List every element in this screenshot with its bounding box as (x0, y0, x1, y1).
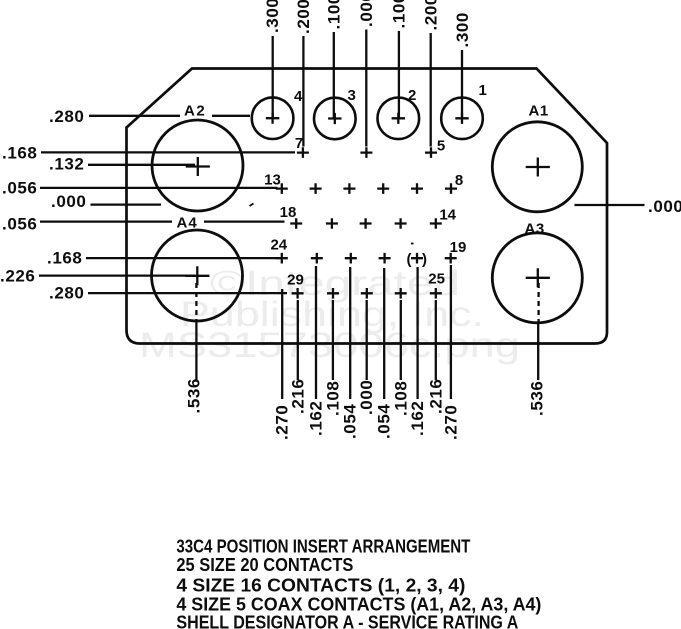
svg-text:.280: .280 (49, 107, 85, 126)
left dim line .168 lower (86, 257, 277, 259)
left dim line .056 lower (40, 220, 172, 222)
svg-text:.216: .216 (288, 379, 307, 415)
svg-text:.300: .300 (453, 12, 472, 48)
size20 contact 28 (327, 288, 339, 299)
size20 contact 11 (343, 183, 355, 194)
left dim line .168 upper (41, 151, 295, 153)
svg-text:.168: .168 (2, 144, 38, 163)
svg-text:4: 4 (294, 88, 303, 105)
bottom dim line .054 left (349, 267, 351, 399)
bottom dim line .000 (366, 300, 368, 380)
svg-text:.200: .200 (294, 0, 313, 34)
bottom dim line .216 right (435, 300, 437, 380)
svg-text:A1: A1 (529, 103, 549, 120)
bottom dim line .270 left (281, 289, 283, 399)
svg-text:7: 7 (295, 135, 303, 152)
left dim line .280 lower (88, 292, 287, 294)
svg-text:.000: .000 (648, 197, 681, 216)
svg-text:1: 1 (479, 82, 487, 99)
speck near A2 lower right (250, 204, 254, 207)
svg-text:29: 29 (287, 272, 304, 289)
svg-text:.168: .168 (47, 249, 83, 268)
svg-text:.162: .162 (408, 401, 427, 437)
bottom dim line .108 left (332, 300, 334, 380)
top dim line .200 right (430, 33, 432, 147)
bottom dim line .162 left (315, 266, 317, 399)
svg-text:19: 19 (450, 239, 467, 256)
svg-text:.300: .300 (263, 0, 282, 33)
coax contact A2 (152, 120, 243, 211)
svg-text:A2: A2 (184, 103, 206, 120)
top dim line .100 right (398, 31, 400, 118)
size20 contact 12 (310, 183, 322, 194)
svg-text:SHELL DESIGNATOR A - SERVICE R: SHELL DESIGNATOR A - SERVICE RATING A (176, 613, 518, 629)
bottom dim line .108 right (400, 300, 402, 380)
bottom dim line .162 right (416, 267, 418, 399)
svg-text:33C4 POSITION INSERT ARRANGEME: 33C4 POSITION INSERT ARRANGEMENT (176, 536, 470, 556)
svg-text:.200: .200 (422, 0, 441, 31)
size20 contact 22 (345, 253, 357, 264)
size20 contact 21 (379, 253, 391, 264)
svg-text:.270: .270 (441, 405, 460, 441)
svg-text:.226: .226 (0, 266, 36, 285)
svg-text:.056: .056 (2, 215, 38, 234)
top dim line .000 center (365, 30, 367, 147)
size16 contact 1 (441, 98, 483, 140)
size16 contact 3 (314, 98, 356, 140)
svg-text:14: 14 (439, 207, 456, 224)
coax contact A3 (492, 233, 582, 323)
svg-text:.536: .536 (184, 378, 203, 414)
bottom dim line .270 right (450, 265, 452, 399)
svg-text:): ) (422, 251, 427, 268)
top dim line .100 left (333, 32, 335, 118)
svg-text:5: 5 (437, 138, 445, 155)
size20 contact 20 (411, 253, 423, 264)
top dim line .300 right (461, 50, 463, 118)
size20 contact 17 (326, 218, 338, 229)
left dim line .000 reference (91, 203, 162, 205)
size20 contact 6 (360, 147, 372, 158)
svg-text:25: 25 (428, 271, 445, 288)
left dim line .226 (39, 274, 195, 276)
bottom dim line .216 left (297, 300, 299, 380)
svg-text:24: 24 (270, 236, 287, 253)
svg-text:.108: .108 (323, 381, 342, 417)
size20 contact 10 (377, 183, 389, 194)
svg-text:25 SIZE 20 CONTACTS: 25 SIZE 20 CONTACTS (176, 555, 353, 575)
svg-text:13: 13 (264, 172, 281, 189)
size20 contact 8 (445, 183, 457, 194)
size20 contact 27 (361, 288, 373, 299)
svg-text:8: 8 (455, 172, 463, 189)
svg-text:.000: .000 (51, 192, 87, 211)
svg-text:.100: .100 (324, 0, 343, 30)
svg-text:18: 18 (280, 204, 297, 221)
size20 contact 9 (411, 183, 423, 194)
svg-text:(: ( (407, 251, 412, 268)
size16 contact 4 (252, 97, 294, 139)
dim line .536 right (from A3) (537, 283, 539, 322)
svg-text:3: 3 (348, 87, 356, 104)
size16 contact 2 (378, 98, 420, 140)
size20 contact 26 (395, 288, 407, 299)
size20 contact 13 (276, 183, 288, 194)
top dim line .300 left (272, 36, 274, 117)
size20 contact 19 (445, 253, 457, 264)
size20 contact 5 (425, 147, 437, 158)
size20 contact 29 (292, 288, 304, 299)
svg-text:.000: .000 (357, 0, 376, 27)
svg-text:.132: .132 (49, 155, 85, 174)
top dim line .200 left (302, 36, 304, 147)
connector shell outline (127, 69, 608, 344)
bottom dim line .054 right (383, 268, 385, 399)
coax contact A4 (152, 230, 243, 321)
dim line .536 left (from A4) (195, 283, 197, 320)
svg-text:A4: A4 (177, 215, 198, 232)
svg-text:.280: .280 (49, 284, 85, 303)
left dim line .056 upper (40, 187, 278, 189)
size20 contact 14 (430, 218, 442, 229)
size20 contact 23 (311, 253, 323, 264)
svg-text:4 SIZE 16 CONTACTS (1, 2, 3, 4: 4 SIZE 16 CONTACTS (1, 2, 3, 4) (176, 576, 465, 596)
svg-text:.536: .536 (528, 381, 547, 417)
svg-text:4 SIZE 5 COAX CONTACTS (A1, A2: 4 SIZE 5 COAX CONTACTS (A1, A2, A3, A4) (176, 595, 541, 615)
size20 contact 25 (430, 288, 442, 299)
svg-text:.056: .056 (2, 179, 38, 198)
right dim line .000 (575, 204, 645, 206)
left dim line .132 (88, 164, 195, 166)
size20 contact 7 (297, 147, 309, 158)
svg-text:A3: A3 (525, 221, 545, 238)
size20 contact 16 (360, 218, 372, 229)
svg-text:2: 2 (408, 87, 416, 104)
size20 contact 18 (290, 218, 302, 229)
svg-text:.000: .000 (357, 380, 376, 416)
left dim line .280 upper (89, 115, 180, 117)
svg-text:.100: .100 (390, 0, 409, 29)
speck above contact 20 (411, 243, 414, 245)
coax contact A1 (492, 122, 582, 212)
size20 contact 24 (276, 253, 288, 264)
size20 contact 15 (395, 218, 407, 229)
